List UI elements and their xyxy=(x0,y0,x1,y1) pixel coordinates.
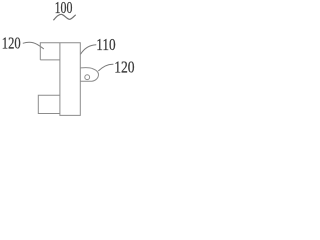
main plate 110 outline with upper-left tab xyxy=(40,43,80,116)
svg-text:120: 120 xyxy=(114,58,135,77)
leader line from right 120 label xyxy=(98,64,113,71)
leader line from left 120 label xyxy=(23,42,44,49)
hole in right lug xyxy=(85,75,90,80)
leader line from 110 label xyxy=(80,45,96,55)
right lug 120 outline xyxy=(80,68,98,82)
wavy underline under 100 xyxy=(53,14,75,20)
svg-text:110: 110 xyxy=(96,36,116,55)
svg-text:120: 120 xyxy=(2,35,21,53)
lower-left foot tab xyxy=(38,95,60,113)
